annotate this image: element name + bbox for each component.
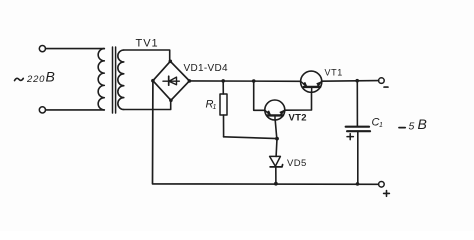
label plus at C1 (347, 134, 353, 140)
bridge rectifier VD1-VD4 diamond (153, 61, 190, 100)
node, VT2 base branch (252, 79, 256, 83)
svg-text:TV1: TV1 (136, 38, 159, 50)
label ~220V (15, 78, 24, 80)
wire, secondary bottom to bridge (124, 102, 171, 110)
label minus (384, 86, 388, 88)
svg-text:VD1-VD4: VD1-VD4 (184, 63, 228, 74)
svg-text:220: 220 (26, 74, 45, 85)
zener diode VD5 (275, 139, 278, 157)
svg-text:5: 5 (409, 121, 415, 133)
wire, AC top to primary (46, 48, 105, 50)
capacitor C1 (356, 81, 358, 127)
terminal, output positive (379, 182, 385, 188)
node, bridge bottom (169, 99, 173, 103)
transistor VT1 (301, 71, 322, 92)
svg-text:VT1: VT1 (325, 68, 343, 78)
svg-text:1: 1 (213, 104, 217, 111)
node, C1 top (355, 79, 359, 83)
node, R1 top (221, 79, 225, 83)
transistor VT2 (265, 100, 285, 120)
transformer TV1 primary winding (98, 49, 104, 110)
svg-text:1: 1 (379, 122, 383, 129)
label plus (384, 191, 390, 197)
node, R1/VT2/VD5 junction (275, 137, 279, 141)
node, bridge right (188, 79, 192, 83)
wire, VT2 emitter to VT1 base (285, 92, 312, 110)
label -5V (399, 127, 405, 129)
transformer TV1 secondary winding (118, 50, 124, 110)
terminal, AC input bottom (39, 107, 45, 113)
terminal, AC input top (39, 46, 45, 52)
wire, secondary top to bridge (124, 50, 170, 60)
svg-text:VD5: VD5 (287, 158, 307, 169)
wire, rail VT1 to output terminal (322, 80, 379, 83)
wire, positive rail bridge to VT1 (189, 80, 300, 82)
node, bridge left (151, 79, 155, 83)
wire, AC bottom to primary (46, 109, 105, 111)
wire, R1 bottom to VD5 node (224, 137, 277, 139)
transformer core (112, 47, 114, 113)
resistor R1 (222, 81, 224, 94)
wire, VT2 collector down to junction (275, 120, 277, 139)
terminal, output negative (379, 78, 385, 84)
wire, negative rail (bridge left, down and right to output) (153, 81, 379, 185)
node, VD5 bottom (274, 182, 278, 186)
node, bridge top (169, 60, 173, 64)
node, C1 bottom (356, 182, 360, 186)
svg-text:B: B (418, 116, 427, 132)
wire, VT2 base branch vertical (254, 81, 265, 110)
diode inside bridge (163, 80, 179, 82)
svg-text:VT2: VT2 (289, 113, 307, 124)
svg-text:B: B (46, 69, 55, 85)
